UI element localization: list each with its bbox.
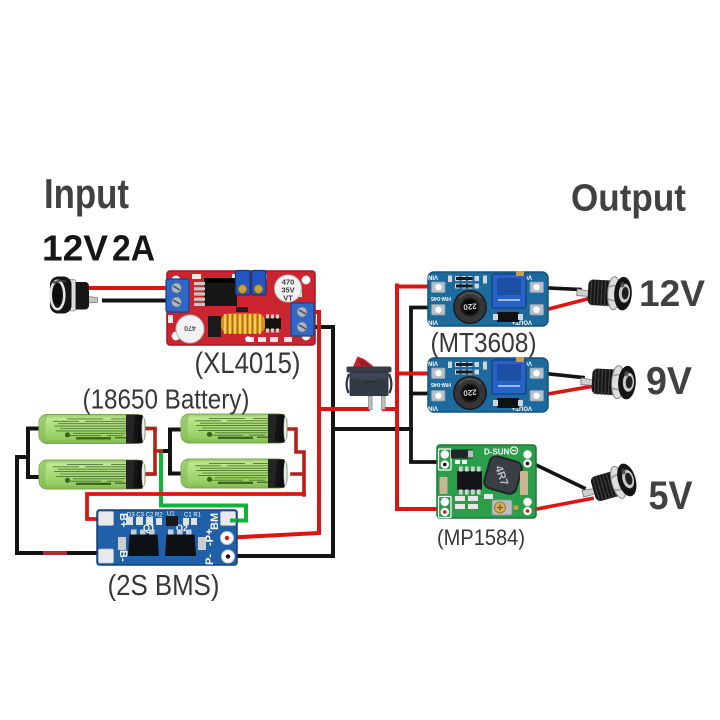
- svg-text:C1 R1: C1 R1: [184, 513, 202, 519]
- svg-text:D3 C3 C2 R2: D3 C3 C2 R2: [127, 513, 163, 519]
- svg-text:B-: B-: [117, 550, 129, 562]
- svg-text:BM: BM: [209, 513, 221, 530]
- svg-text:12V: 12V: [639, 272, 705, 314]
- svg-text:9V: 9V: [646, 360, 692, 403]
- svg-text:U1: U1: [167, 512, 175, 518]
- svg-text:(MP1584): (MP1584): [437, 525, 525, 550]
- svg-text:D-SUN: D-SUN: [484, 448, 510, 457]
- svg-text:(18650 Battery): (18650 Battery): [83, 384, 250, 415]
- svg-text:(MT3608): (MT3608): [431, 327, 537, 358]
- svg-text:470: 470: [184, 324, 196, 331]
- svg-text:Input: Input: [44, 170, 129, 217]
- svg-text:P-: P-: [204, 554, 216, 565]
- svg-text:5V: 5V: [649, 474, 693, 518]
- svg-text:(XL4015): (XL4015): [195, 347, 301, 380]
- svg-text:2A: 2A: [112, 228, 155, 269]
- svg-text:VT: VT: [283, 294, 293, 303]
- svg-text:12V: 12V: [42, 228, 108, 269]
- svg-text:(2S BMS): (2S BMS): [108, 570, 220, 602]
- svg-text:Output: Output: [571, 178, 686, 220]
